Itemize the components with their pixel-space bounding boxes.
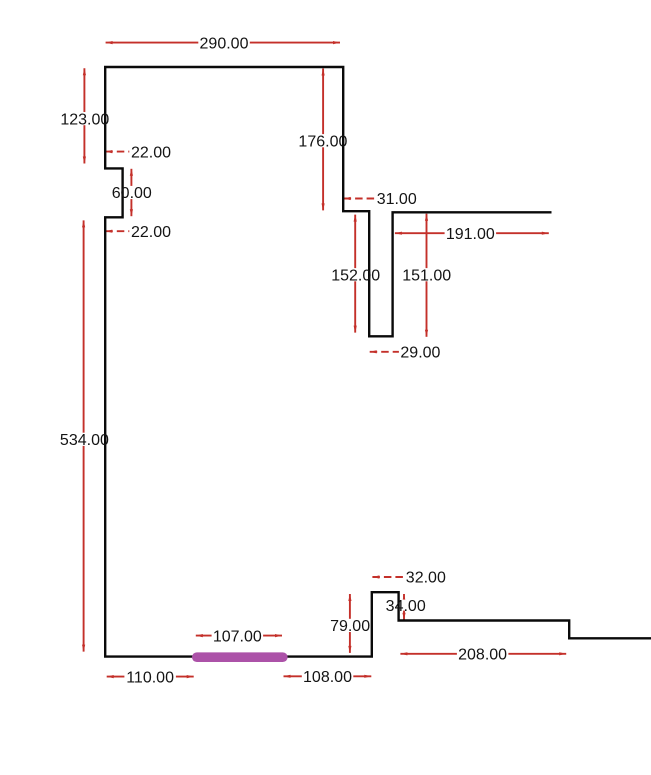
svg-text:151.00: 151.00: [402, 267, 451, 284]
svg-text:22.00: 22.00: [131, 224, 171, 241]
dimension 290.00 horizontal line: [106, 42, 340, 44]
svg-text:534.00: 534.00: [60, 432, 109, 449]
svg-text:60.00: 60.00: [112, 185, 152, 202]
svg-text:107.00: 107.00: [213, 628, 262, 645]
svg-text:32.00: 32.00: [406, 570, 446, 587]
dimension 34.00 vertical line: [403, 594, 405, 620]
dimension 110.00 horizontal line: [107, 676, 194, 678]
dimension 60.00 vertical line: [130, 169, 132, 216]
svg-text:22.00: 22.00: [131, 144, 171, 161]
dimension 152.00 vertical line: [354, 215, 356, 333]
dimension 31.00 leader line: [344, 198, 375, 200]
dimension 22.00 leader line: [105, 151, 129, 153]
dimension 79.00 vertical line: [349, 594, 351, 653]
dimension 22.00 leader line: [105, 230, 129, 232]
svg-text:176.00: 176.00: [298, 133, 347, 150]
wall outline polyline: [105, 67, 651, 657]
svg-text:152.00: 152.00: [331, 267, 380, 284]
purple highlighted wall segment 107.00: [197, 652, 283, 662]
svg-text:208.00: 208.00: [458, 647, 507, 664]
svg-text:123.00: 123.00: [60, 111, 109, 128]
dimension 191.00 horizontal line: [395, 232, 549, 234]
dimension value labels: [60, 35, 507, 686]
dimension 208.00 horizontal line: [400, 653, 566, 655]
svg-text:79.00: 79.00: [330, 618, 370, 635]
dimension 123.00 vertical line: [83, 68, 85, 163]
svg-text:191.00: 191.00: [446, 226, 495, 243]
svg-text:108.00: 108.00: [303, 669, 352, 686]
dimension 107.00 horizontal line: [196, 635, 282, 637]
dimension 32.00 leader line: [372, 576, 404, 578]
svg-text:34.00: 34.00: [386, 598, 426, 615]
svg-text:290.00: 290.00: [200, 35, 249, 52]
svg-text:29.00: 29.00: [400, 345, 440, 362]
svg-text:31.00: 31.00: [377, 191, 417, 208]
text background boxes: [59, 36, 509, 683]
dimension 29.00 leader line: [370, 351, 399, 353]
dimension 534.00 vertical line: [83, 220, 85, 651]
dimension 176.00 vertical line: [322, 69, 324, 211]
dimension 108.00 horizontal line: [284, 675, 372, 677]
svg-text:110.00: 110.00: [126, 669, 174, 686]
dimension 151.00 vertical line: [426, 214, 428, 337]
